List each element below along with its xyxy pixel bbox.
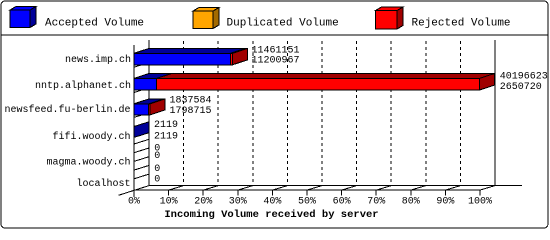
y-axis row boundary diagonal 3 <box>134 113 149 118</box>
x-axis tick 80% (3D connector) <box>411 186 426 191</box>
svg-text:0: 0 <box>154 174 160 185</box>
svg-text:Rejected Volume: Rejected Volume <box>412 17 511 29</box>
gridline 10% <box>183 41 185 186</box>
svg-text:newsfeed.fu-berlin.de: newsfeed.fu-berlin.de <box>4 104 130 116</box>
svg-text:60%: 60% <box>333 196 351 207</box>
x-axis tick 60% (vertical) <box>341 190 343 195</box>
svg-text:0%: 0% <box>128 196 140 207</box>
y-axis slot diagonal 5 <box>134 148 149 153</box>
svg-text:2119: 2119 <box>154 131 178 142</box>
gridline 30% <box>252 41 254 186</box>
svg-text:Duplicated Volume: Duplicated Volume <box>227 17 339 29</box>
svg-text:11200967: 11200967 <box>252 55 300 66</box>
x-axis tick 70% (3D connector) <box>376 186 391 191</box>
legend separator line <box>1 34 548 36</box>
y-axis slot diagonal 6 <box>134 157 149 162</box>
svg-text:news.imp.ch: news.imp.ch <box>65 54 131 66</box>
x-axis tick 90% (vertical) <box>444 190 446 195</box>
x-axis tick 50% (3D connector) <box>307 186 322 191</box>
x-axis tick 10% (3D connector) <box>169 186 184 191</box>
bar row3 newsfeed.fu-berlin.de accepted (blue, front) <box>134 99 164 115</box>
svg-text:localhost: localhost <box>76 178 130 190</box>
x-axis tick 40% (vertical) <box>271 190 273 195</box>
bar row2 nntp.alphanet.ch accepted (blue, front) <box>134 74 172 91</box>
legend swatch Rejected Volume (red cube) <box>376 7 404 29</box>
x-axis tick 40% (3D connector) <box>272 186 287 191</box>
svg-text:90%: 90% <box>436 196 454 207</box>
x-axis tick 20% (3D connector) <box>203 186 218 191</box>
svg-text:magma.woody.ch: magma.woody.ch <box>46 156 130 168</box>
bar row1 news.imp.ch accepted (blue, front) <box>134 48 246 64</box>
gridline 80% <box>425 41 427 186</box>
x-axis tick 30% (vertical) <box>237 190 239 195</box>
svg-text:2119: 2119 <box>154 120 178 131</box>
bar row1 news.imp.ch rejected (red, behind) <box>134 48 248 64</box>
y-axis row boundary diagonal 2 <box>134 88 149 93</box>
svg-text:50%: 50% <box>298 196 316 207</box>
svg-text:40%: 40% <box>263 196 281 207</box>
y-axis slot diagonal 7 <box>134 165 149 170</box>
x-axis front edge / 0% tick (long diagonal) <box>119 186 150 196</box>
gridline 40% <box>286 41 288 186</box>
bar row3 newsfeed.fu-berlin.de rejected (red, behind) <box>134 99 165 115</box>
x-axis front edge line <box>134 189 480 191</box>
bar row2 nntp.alphanet.ch rejected (red, behind) <box>134 74 495 91</box>
x-axis tick 10% (vertical) <box>168 190 170 195</box>
x-axis tick 90% (3D connector) <box>445 186 460 191</box>
svg-text:70%: 70% <box>367 196 385 207</box>
x-axis tick 30% (3D connector) <box>238 186 253 191</box>
x-axis line <box>149 185 522 187</box>
svg-text:20%: 20% <box>194 196 212 207</box>
svg-text:1798715: 1798715 <box>170 106 212 117</box>
y-axis slot diagonal 8 <box>134 174 149 179</box>
x-axis tick 80% (vertical) <box>410 190 412 195</box>
gridline 100% (solid right border) <box>494 40 496 186</box>
x-axis tick 100% (3D connector) <box>480 186 495 191</box>
svg-text:10%: 10% <box>160 196 178 207</box>
gridline 20% <box>217 41 219 186</box>
svg-text:2650720: 2650720 <box>500 82 542 93</box>
bar row4 fifi.woody.ch (zero-length, dark blue end face) <box>134 122 149 138</box>
x-axis tick 60% (3D connector) <box>342 186 357 191</box>
y-axis slot diagonal 4 <box>134 139 149 144</box>
svg-text:nntp.alphanet.ch: nntp.alphanet.ch <box>35 80 131 92</box>
x-axis tick 100% (vertical) <box>479 190 481 195</box>
svg-text:80%: 80% <box>402 196 420 207</box>
x-axis tick 50% (vertical) <box>306 190 308 195</box>
y-axis row boundary diagonal 1 <box>134 63 149 68</box>
svg-text:Incoming Volume received by se: Incoming Volume received by server <box>164 209 378 221</box>
legend swatch Accepted Volume (blue cube) <box>10 7 36 28</box>
y-axis back vertical line <box>148 40 150 186</box>
svg-text:40196623: 40196623 <box>500 71 548 82</box>
y-axis front vertical line <box>133 45 135 197</box>
gridline 70% <box>390 41 392 186</box>
svg-text:fifi.woody.ch: fifi.woody.ch <box>52 131 130 143</box>
gridline 50% <box>321 41 323 186</box>
x-axis tick 20% (vertical) <box>202 190 204 195</box>
svg-text:100%: 100% <box>468 196 492 207</box>
svg-text:0: 0 <box>154 151 160 162</box>
x-axis tick 70% (vertical) <box>375 190 377 195</box>
gridline 60% <box>356 41 358 186</box>
svg-text:30%: 30% <box>229 196 247 207</box>
legend swatch Duplicated Volume (orange cube) <box>193 8 219 29</box>
gridline 90% <box>459 41 461 186</box>
svg-text:Accepted Volume: Accepted Volume <box>45 17 144 29</box>
